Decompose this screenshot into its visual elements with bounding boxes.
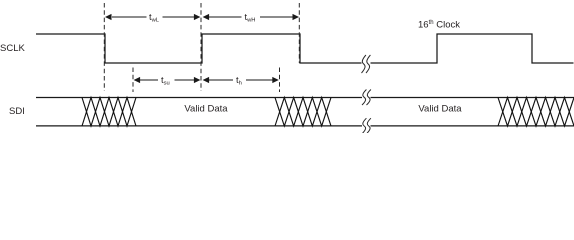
dashed line at SCLK rising edge [200, 3, 202, 91]
dashed line at valid data start [132, 68, 134, 93]
dimension arrow tWH [208, 16, 293, 18]
dashed line at second SCLK falling edge [298, 3, 300, 63]
wire SCLK waveform left section [36, 34, 362, 63]
hatch transition region 2 [275, 98, 331, 127]
hatch transition region 3 [498, 98, 574, 127]
wire SCLK waveform right section [371, 34, 574, 63]
dashed line at first SCLK falling edge [103, 3, 105, 91]
break symbol on SDI top rail [362, 90, 371, 106]
dimension arrow tSU [140, 79, 195, 81]
svg-text:SCLK: SCLK [0, 43, 25, 54]
svg-text:Valid Data: Valid Data [184, 104, 228, 115]
break symbol on SDI bottom rail [362, 118, 371, 134]
hatch transition region 1 [82, 98, 136, 127]
dimension arrow tH [208, 79, 273, 81]
dimension arrow tWL [112, 16, 195, 18]
wire SDI bus top rail [36, 97, 574, 99]
svg-text:Valid Data: Valid Data [418, 104, 462, 115]
svg-text:SDI: SDI [9, 106, 25, 117]
dashed line at valid data end [279, 68, 281, 93]
break symbol on SCLK line [362, 55, 371, 73]
wire SDI bus bottom rail [36, 125, 574, 127]
svg-text:16th Clock: 16th Clock [418, 20, 460, 31]
